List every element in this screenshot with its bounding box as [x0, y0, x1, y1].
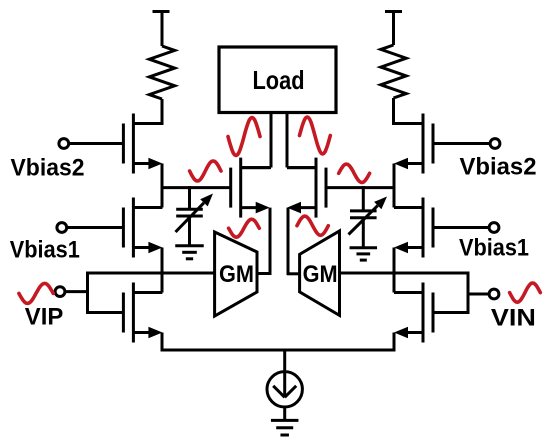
terminal VIN: [489, 289, 499, 299]
wire R2 bottom to M4 drain: [392, 98, 395, 125]
svg-text:Vbias1: Vbias1: [459, 234, 529, 261]
supply terminal T-bar left: [153, 10, 170, 46]
wire node B right to M6 gate: [326, 186, 396, 189]
transistor M7 (Vbias1 right cascode): [394, 198, 433, 258]
ground main: [271, 420, 299, 435]
tail bus wire: [162, 349, 394, 352]
wire VIN bus to GM2 input: [340, 272, 470, 275]
wire M8 source down: [393, 333, 396, 352]
signal sine at GM2 output: [297, 216, 328, 235]
transistor M6 (right GM cascode): [287, 158, 326, 218]
terminal Vbias2 right: [433, 139, 500, 149]
signal sine under Load right: [300, 117, 331, 154]
Load box: [219, 47, 336, 113]
wire M1 source to M2 drain (node A left): [161, 164, 164, 208]
wire M3 source down: [161, 333, 164, 352]
svg-text:GM: GM: [219, 261, 254, 288]
signal sine at node A left: [190, 161, 221, 181]
resistor R2 (right load resistor): [381, 45, 406, 98]
wire M5 source to GM1 output: [269, 208, 272, 275]
terminal Vbias1 right: [433, 223, 499, 233]
source sine at VIP: [19, 283, 53, 303]
transistor M4 (Vbias2 right cascode): [394, 114, 433, 174]
transistor M8 (VIN input device): [394, 283, 433, 343]
terminal VIP: [55, 287, 65, 297]
transistor M2 (Vbias1 left cascode): [123, 198, 162, 258]
transistor M5 (left GM cascode): [231, 158, 270, 218]
ground under C1: [175, 246, 204, 259]
VIN input fork wires: [433, 272, 489, 315]
wire VIP bus to GM1 input: [86, 272, 215, 275]
svg-text:Vbias1: Vbias1: [10, 237, 80, 264]
transistor M1 (Vbias2 left cascode): [123, 114, 162, 174]
wire GM1 output: [257, 272, 271, 275]
wire current source to ground: [283, 407, 286, 420]
terminal Vbias1 left: [57, 223, 124, 233]
signal sine at node B right: [339, 164, 370, 182]
ground under C2: [350, 248, 378, 260]
wire R1 bottom to M1 drain: [161, 99, 164, 125]
varactor C1 (left): [176, 186, 214, 247]
wire M6 source to GM2 output: [287, 208, 290, 275]
GM block U2 (right): [300, 231, 340, 316]
wire M7 source to M8 drain: [393, 248, 396, 293]
wire M2 source to M3 drain: [161, 248, 164, 293]
wire Load right output: [287, 112, 316, 168]
transistor M3 (VIP input device): [123, 283, 162, 343]
signal sine at GM1 output: [229, 219, 260, 237]
GM block U1 (left): [215, 232, 257, 316]
varactor C2 (right): [349, 186, 388, 249]
wire GM2 output: [287, 272, 300, 275]
signal sine under Load left: [228, 118, 260, 156]
wire node A left to M5 gate: [161, 186, 231, 189]
wire M4 source to M7 drain (node B right): [393, 164, 396, 208]
terminal Vbias2 left: [59, 139, 124, 149]
svg-text:VIN: VIN: [491, 304, 536, 331]
svg-text:Vbias2: Vbias2: [11, 155, 85, 182]
wire tail bus to current source: [283, 350, 286, 397]
svg-text:GM: GM: [303, 261, 338, 288]
source sine at VIN: [510, 283, 541, 302]
supply terminal T-bar right: [385, 10, 402, 45]
svg-text:VIP: VIP: [25, 304, 64, 331]
svg-text:Vbias2: Vbias2: [460, 154, 537, 181]
svg-text:Load: Load: [253, 65, 305, 95]
current source I1: [267, 372, 302, 407]
resistor R1 (left load resistor): [149, 46, 174, 99]
VIP input fork wires: [65, 272, 123, 315]
wire Load left output: [241, 112, 271, 168]
